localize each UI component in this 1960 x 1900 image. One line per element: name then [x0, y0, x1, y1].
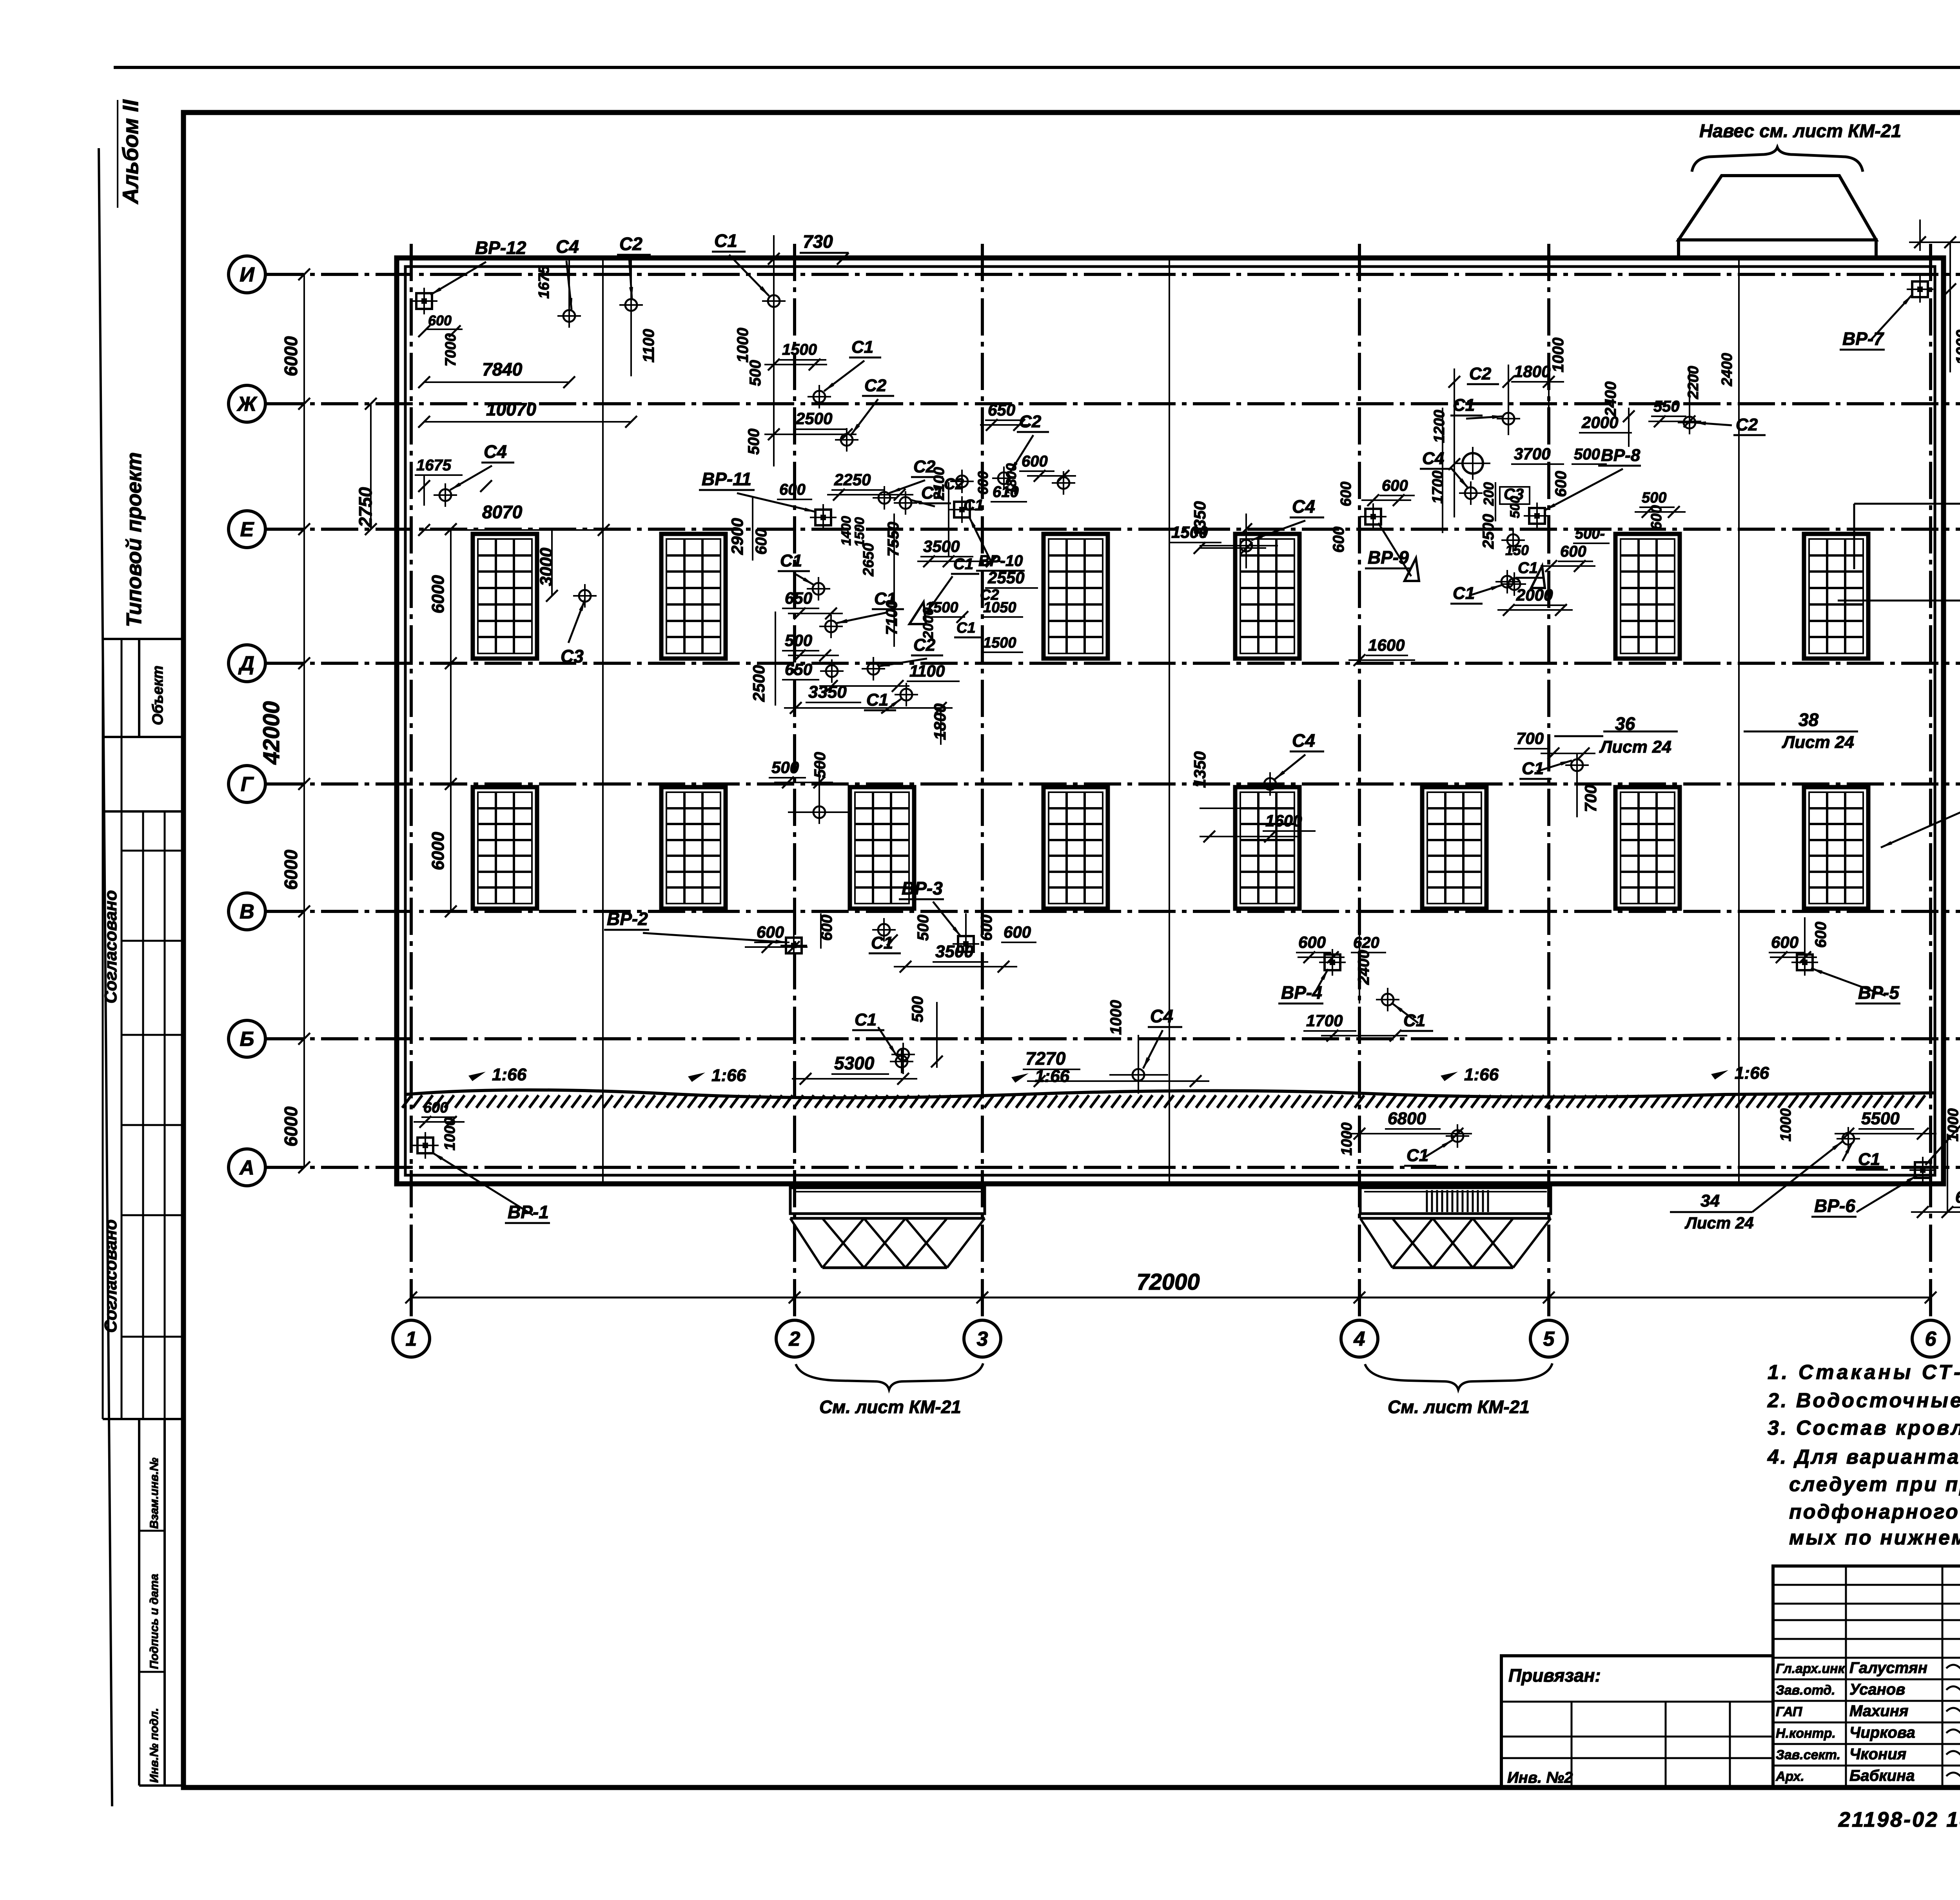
svg-text:38: 38 — [1798, 710, 1819, 730]
leader VR-10 — [969, 517, 992, 563]
cup C4 symbol top — [557, 304, 581, 328]
svg-text:1000: 1000 — [1339, 1122, 1355, 1156]
cup symbol k — [808, 800, 831, 824]
svg-text:С4: С4 — [1292, 730, 1315, 751]
svg-text:2200: 2200 — [1685, 366, 1702, 399]
cup C1 t — [872, 918, 896, 942]
svg-text:1500: 1500 — [782, 341, 817, 358]
leader VR-2 — [643, 933, 787, 942]
svg-text:2750: 2750 — [355, 487, 376, 528]
svg-text:4: 4 — [1354, 1328, 1365, 1350]
skylight band E-D cx=2744 — [1044, 534, 1108, 659]
drain funnel VR-3 — [953, 931, 979, 957]
leader C1 s — [1537, 760, 1572, 771]
leader C1 j — [881, 699, 902, 713]
leader C3 — [568, 600, 585, 643]
grid column circle 6 — [1912, 1320, 1949, 1357]
svg-text:С2: С2 — [1019, 412, 1042, 431]
svg-text:500: 500 — [747, 360, 764, 386]
leader VR-1 — [432, 1152, 533, 1215]
skylight band G-V cx=3710 — [1422, 787, 1486, 909]
inner dim chain x=1150 — [450, 529, 452, 911]
drain funnel VR-6 pos — [1909, 1157, 1936, 1183]
svg-text:650: 650 — [785, 660, 812, 679]
svg-text:42000: 42000 — [259, 701, 284, 765]
grid row circle Д — [229, 645, 265, 682]
svg-text:1675: 1675 — [416, 457, 452, 474]
svg-text:1:66: 1:66 — [492, 1065, 527, 1084]
svg-text:600: 600 — [1955, 1188, 1960, 1206]
svg-text:3. Состав кровли см. разрез: 3. Состав кровли см. разрез 1-1 лист 9. — [1768, 1417, 1960, 1439]
skylight band G-V cx=2250 — [850, 787, 914, 909]
svg-text:600: 600 — [978, 915, 995, 941]
svg-text:600: 600 — [779, 481, 806, 498]
svg-text:Чиркова: Чиркова — [1849, 1724, 1915, 1741]
svg-text:2500: 2500 — [1480, 514, 1497, 549]
svg-text:5500: 5500 — [1861, 1109, 1900, 1128]
svg-text:С1: С1 — [780, 551, 802, 570]
svg-text:Бабкина: Бабкина — [1849, 1767, 1915, 1784]
svg-text:10070: 10070 — [486, 399, 536, 419]
svg-text:1350: 1350 — [1191, 751, 1209, 788]
leader C2 d — [889, 480, 925, 493]
svg-text:34: 34 — [1700, 1191, 1720, 1210]
svg-text:1000: 1000 — [442, 1117, 458, 1151]
svg-text:2400: 2400 — [1355, 950, 1372, 985]
svg-text:200: 200 — [1481, 482, 1497, 506]
svg-text:650: 650 — [988, 401, 1015, 419]
cup C1 u — [1376, 988, 1399, 1011]
skylight band G-V cx=4684 — [1804, 787, 1868, 909]
cup C1 j — [895, 683, 918, 706]
cup C1 symbol b — [808, 385, 831, 408]
svg-text:А: А — [239, 1156, 254, 1179]
grid column circle 4 — [1341, 1320, 1378, 1357]
flag VR-9 triangle — [1405, 558, 1419, 581]
svg-text:См. лист КМ-21: См. лист КМ-21 — [1388, 1397, 1530, 1417]
intermediate axis line x=2983 — [1169, 259, 1170, 1183]
leader C1 x1 — [927, 576, 953, 612]
svg-text:С1: С1 — [953, 555, 973, 573]
svg-text:Типовой проект: Типовой проект — [122, 452, 146, 627]
svg-text:6000: 6000 — [281, 336, 301, 376]
leader 34 — [1752, 1141, 1842, 1212]
svg-text:7840: 7840 — [482, 359, 523, 379]
cup C2 f — [1052, 471, 1075, 495]
svg-text:Объект: Объект — [150, 666, 166, 725]
svg-text:1:66: 1:66 — [1464, 1065, 1499, 1084]
drain funnel VR-7 — [1907, 276, 1933, 303]
svg-text:ВР-10: ВР-10 — [978, 552, 1023, 570]
svg-text:1000: 1000 — [734, 328, 751, 363]
svg-text:600: 600 — [428, 312, 452, 328]
grid row line А — [267, 1166, 1960, 1169]
svg-text:500: 500 — [745, 428, 762, 455]
svg-text:С1: С1 — [1518, 559, 1538, 577]
svg-text:600: 600 — [1330, 526, 1347, 553]
grid column line 3 — [981, 244, 984, 1320]
svg-text:6800: 6800 — [1388, 1109, 1426, 1128]
svg-text:1700: 1700 — [1430, 470, 1446, 504]
svg-text:600: 600 — [1004, 923, 1031, 941]
skylight band G-V cx=3233 — [1235, 787, 1299, 909]
svg-text:3000: 3000 — [537, 548, 556, 586]
svg-text:600: 600 — [1382, 477, 1408, 494]
cup C1 s — [1565, 753, 1589, 777]
leader VR-8 — [1544, 469, 1623, 510]
svg-text:1700: 1700 — [1306, 1011, 1343, 1030]
svg-text:Д: Д — [238, 652, 254, 675]
svg-text:3: 3 — [977, 1328, 988, 1350]
ribbed vent block on canopy — [1427, 1190, 1488, 1212]
drain funnel VR-5 — [1791, 949, 1818, 976]
cup p4 — [1503, 572, 1526, 596]
canopy truss columns 2-3 — [790, 1188, 985, 1214]
svg-text:600: 600 — [753, 528, 770, 555]
svg-text:600: 600 — [423, 1100, 448, 1116]
svg-text:ВР-2: ВР-2 — [607, 909, 648, 929]
cup C1 h — [807, 577, 830, 601]
building outer wall — [397, 258, 1944, 1184]
cup C4 m — [1258, 772, 1282, 796]
svg-text:6000: 6000 — [428, 575, 448, 613]
leader VR-5 — [1811, 968, 1886, 996]
svg-text:8070: 8070 — [482, 502, 523, 522]
svg-text:Взам.инв.№: Взам.инв.№ — [148, 1458, 161, 1529]
svg-text:1: 1 — [406, 1328, 417, 1350]
svg-text:ВР-11: ВР-11 — [702, 469, 751, 489]
drain funnel VR-4 — [1319, 949, 1346, 976]
cup C2 symbol top — [619, 293, 643, 317]
svg-text:2550: 2550 — [987, 568, 1024, 587]
svg-text:700: 700 — [1581, 785, 1600, 812]
svg-text:1800: 1800 — [931, 704, 949, 740]
cup C1 y — [1446, 1124, 1469, 1148]
svg-text:600: 600 — [1298, 933, 1326, 951]
leader C4 m — [1275, 755, 1305, 779]
leader C2 q — [1694, 423, 1732, 425]
svg-text:2500: 2500 — [750, 665, 768, 702]
svg-text:См. лист КМ-21: См. лист КМ-21 — [819, 1397, 961, 1417]
svg-text:1600: 1600 — [1265, 811, 1302, 830]
title block signature grid — [1773, 1566, 1960, 1787]
svg-text:2. Водосточные воронки ВР-1: 2. Водосточные воронки ВР-1 ... 12 см. В… — [1767, 1389, 1960, 1412]
leader C4 row Zh — [450, 466, 492, 490]
svg-text:Навес см. лист КМ-21: Навес см. лист КМ-21 — [1699, 120, 1901, 141]
svg-text:1100: 1100 — [909, 662, 945, 680]
svg-text:следует при привязке предус: следует при привязке предусмотреть допол… — [1789, 1473, 1960, 1496]
svg-text:500: 500 — [771, 758, 799, 777]
svg-text:В: В — [240, 900, 254, 923]
grid column circle 5 — [1530, 1320, 1567, 1357]
leader C2 b — [851, 399, 878, 434]
cup p2 — [1459, 481, 1483, 505]
cup C2 d — [873, 486, 896, 510]
leader C1 i — [836, 612, 888, 623]
leader C2 f — [1010, 435, 1033, 473]
leader C1 z — [1842, 1143, 1852, 1161]
leader VR-12 — [430, 262, 486, 295]
svg-text:3500: 3500 — [923, 537, 960, 555]
leader zenith lantern — [1881, 809, 1960, 847]
leader C2 top — [629, 258, 632, 299]
svg-text:С1: С1 — [851, 338, 873, 357]
svg-text:1200: 1200 — [1431, 410, 1448, 443]
grid row line И — [267, 273, 1960, 276]
svg-text:Согласовано: Согласовано — [101, 1219, 120, 1333]
svg-text:ВР-8: ВР-8 — [1601, 446, 1641, 465]
main frame — [183, 113, 1960, 1787]
drain funnel VR-1 — [412, 1132, 439, 1159]
svg-text:Зав.сект.: Зав.сект. — [1776, 1748, 1840, 1762]
cup C2 i3 — [820, 659, 844, 683]
grid column circle 1 — [393, 1320, 430, 1357]
outer border left — [99, 148, 112, 1806]
cup C3 symbol — [573, 584, 597, 608]
grid row line В — [267, 910, 1960, 913]
svg-text:С2: С2 — [864, 376, 887, 395]
svg-text:подфонарного пространства с: подфонарного пространства с помощью нагр… — [1789, 1501, 1960, 1523]
svg-text:650: 650 — [785, 589, 812, 607]
svg-text:С2: С2 — [913, 635, 936, 655]
leader C4 p2 — [1450, 467, 1468, 488]
leader C4 top1 — [566, 261, 572, 310]
grid row line Б — [267, 1037, 1960, 1040]
svg-text:С4: С4 — [1422, 449, 1444, 468]
leader VR-3 — [933, 902, 961, 937]
svg-text:7270: 7270 — [1025, 1048, 1066, 1069]
leader C1 u — [1392, 1004, 1418, 1023]
svg-text:3350: 3350 — [808, 682, 847, 702]
skylight band G-V cx=1769 — [661, 787, 726, 909]
grid column line 6 — [1929, 244, 1932, 1320]
svg-text:1100: 1100 — [640, 329, 657, 363]
cup C4 w — [1127, 1063, 1150, 1087]
svg-text:Согласовано: Согласовано — [101, 890, 120, 1004]
cup p1 — [1497, 407, 1520, 430]
svg-text:1000: 1000 — [1550, 338, 1567, 372]
drain funnel VR-2 — [780, 932, 807, 959]
drain funnel VR-12 — [411, 288, 437, 314]
cup C1 n — [1495, 570, 1519, 593]
leader C2 i2 — [878, 659, 927, 666]
leader C1 top — [729, 255, 769, 296]
svg-text:ВР-12: ВР-12 — [475, 238, 526, 258]
grid row circle Г — [229, 766, 265, 802]
canopy truss columns 4-5 — [1360, 1188, 1551, 1214]
skylight band E-D cx=1288 — [473, 534, 537, 659]
leader VR-4 — [1313, 969, 1328, 996]
svg-text:Чкония: Чкония — [1849, 1746, 1906, 1763]
leader C1 b — [824, 361, 864, 391]
svg-text:2100: 2100 — [931, 467, 947, 501]
svg-text:1:66: 1:66 — [1735, 1063, 1769, 1083]
grid column line 1 — [410, 244, 413, 1320]
svg-text:С2: С2 — [1469, 364, 1492, 383]
svg-text:5300: 5300 — [834, 1053, 875, 1073]
svg-text:600: 600 — [757, 923, 784, 941]
cup extra 2 — [992, 466, 1016, 490]
skylight band E-D cx=4203 — [1615, 534, 1680, 659]
svg-text:2: 2 — [789, 1328, 800, 1350]
svg-text:Лист 24: Лист 24 — [1684, 1214, 1754, 1232]
grid column line 2 — [793, 244, 796, 1320]
svg-text:С1: С1 — [964, 497, 984, 514]
svg-text:6000: 6000 — [281, 849, 301, 890]
flag C1 triangle — [909, 602, 926, 624]
svg-text:600: 600 — [1022, 453, 1048, 470]
svg-text:Арх.: Арх. — [1775, 1769, 1804, 1784]
svg-text:ВР-9: ВР-9 — [1368, 547, 1409, 568]
svg-text:С1: С1 — [866, 690, 888, 710]
svg-text:С1: С1 — [1858, 1150, 1880, 1169]
privyazan box — [1501, 1656, 1773, 1787]
svg-text:С1: С1 — [714, 230, 737, 251]
svg-text:730: 730 — [803, 231, 833, 252]
intermediate axis line x=1538 — [602, 259, 604, 1183]
svg-text:Альбом II: Альбом II — [118, 99, 143, 205]
svg-text:С1: С1 — [874, 589, 896, 608]
grid row circle Б — [229, 1020, 265, 1057]
grid row circle В — [229, 893, 265, 930]
leader C1 h — [796, 574, 814, 585]
svg-text:ВР-6: ВР-6 — [1814, 1196, 1855, 1216]
skylight band E-D cx=4684 — [1804, 534, 1868, 659]
svg-text:500: 500 — [785, 631, 812, 650]
svg-text:Н.контр.: Н.контр. — [1776, 1726, 1836, 1741]
grid column circle 2 — [776, 1320, 813, 1357]
outer border top — [114, 66, 1960, 69]
svg-text:7000: 7000 — [443, 333, 459, 367]
svg-text:600: 600 — [1812, 922, 1829, 948]
svg-text:Подпись и дата: Подпись и дата — [148, 1574, 161, 1669]
dimension 72000 — [411, 1297, 1931, 1299]
drainage slope line — [405, 1090, 1935, 1098]
svg-text:1000: 1000 — [1953, 330, 1960, 365]
svg-text:6: 6 — [1925, 1328, 1937, 1350]
svg-text:4. Для варианта с расчетной: 4. Для варианта с расчетной зимней темпе… — [1767, 1446, 1960, 1468]
skylight band E-D cx=1769 — [661, 534, 726, 659]
grid row line Г — [267, 782, 1960, 786]
building inner wall line — [405, 267, 1935, 1175]
svg-text:Инв.№ подл.: Инв.№ подл. — [148, 1708, 161, 1783]
leader C1 y — [1423, 1140, 1453, 1158]
svg-text:3700: 3700 — [1514, 445, 1550, 463]
svg-text:Привязан:: Привязан: — [1508, 1665, 1601, 1686]
svg-text:1:66: 1:66 — [711, 1066, 746, 1085]
svg-text:Гл.арх.инк: Гл.арх.инк — [1776, 1661, 1846, 1676]
brace under naves label — [1692, 147, 1863, 172]
canopy naves top — [1679, 176, 1876, 240]
cup C1 d — [894, 491, 917, 515]
svg-text:С2: С2 — [619, 234, 642, 254]
intermediate axis line x=4436 — [1738, 259, 1740, 1183]
cup p6 — [1678, 411, 1701, 434]
leader C2 p — [1466, 416, 1504, 419]
flag C1 p4 triangle — [1531, 566, 1545, 588]
svg-text:1500: 1500 — [983, 635, 1016, 651]
svg-text:550: 550 — [1653, 398, 1680, 415]
svg-text:Усанов: Усанов — [1849, 1681, 1905, 1698]
svg-text:600: 600 — [1771, 933, 1798, 951]
grid column line 5 — [1547, 244, 1550, 1320]
grid column line 4 — [1358, 244, 1361, 1320]
leader C4 w — [1143, 1030, 1163, 1069]
drain funnel VR-8 — [1524, 503, 1550, 529]
grid row line Д — [267, 662, 1960, 665]
svg-text:150: 150 — [1505, 542, 1529, 558]
svg-text:1675: 1675 — [536, 265, 552, 299]
svg-text:Лист 24: Лист 24 — [1599, 737, 1671, 757]
svg-text:600: 600 — [1648, 505, 1665, 530]
svg-text:2400: 2400 — [1602, 381, 1619, 417]
svg-text:Галустян: Галустян — [1849, 1659, 1927, 1677]
svg-text:С4: С4 — [1150, 1006, 1173, 1026]
svg-text:Е: Е — [240, 518, 254, 541]
svg-text:1. Стаканы СТ-1...4 для про: 1. Стаканы СТ-1...4 для прохода вентшахт… — [1768, 1361, 1960, 1384]
grid row circle Ж — [229, 385, 265, 422]
svg-text:С1: С1 — [1453, 584, 1475, 603]
cup C1 i — [819, 615, 843, 638]
cup C1 z — [1837, 1127, 1860, 1151]
svg-text:500: 500 — [909, 996, 926, 1022]
leader VR-6 — [1857, 1175, 1918, 1212]
leader C1 b-a — [878, 1027, 897, 1056]
svg-text:1500: 1500 — [852, 517, 867, 547]
svg-text:С1: С1 — [855, 1010, 877, 1029]
svg-text:ВР-3: ВР-3 — [902, 878, 943, 898]
svg-text:С4: С4 — [1292, 496, 1315, 517]
svg-text:500: 500 — [1508, 496, 1523, 518]
svg-text:мых по нижнему периметру оп: мых по нижнему периметру опорного контур… — [1789, 1526, 1960, 1549]
leader VR-11 — [737, 493, 816, 512]
grid row circle А — [229, 1149, 265, 1186]
leader C1 n — [1471, 585, 1503, 595]
cup C2 i2 — [862, 657, 885, 681]
svg-text:С4: С4 — [484, 441, 507, 462]
grid row circle Е — [229, 511, 265, 548]
cup C2 symbol b — [835, 428, 858, 452]
svg-text:2650: 2650 — [860, 543, 877, 577]
skylight band G-V cx=1288 — [473, 787, 537, 909]
svg-text:1600: 1600 — [1368, 636, 1405, 654]
svg-text:500: 500 — [1642, 490, 1666, 506]
left dim chain — [303, 274, 305, 1167]
sidebar cell grid — [103, 638, 183, 640]
svg-text:С3: С3 — [561, 646, 584, 666]
drain funnel VR-9 — [1360, 503, 1387, 530]
svg-text:2900: 2900 — [728, 518, 746, 555]
drain funnel VR-10 — [949, 496, 975, 523]
svg-text:С1: С1 — [1453, 396, 1475, 415]
svg-text:Лист 24: Лист 24 — [1782, 733, 1854, 752]
grid row line Е — [267, 528, 1960, 531]
svg-text:2500: 2500 — [795, 409, 832, 428]
svg-text:1500: 1500 — [1171, 523, 1208, 541]
svg-text:С2: С2 — [1736, 415, 1758, 434]
cup C4 symbol row Zh — [434, 483, 457, 507]
svg-text:С1: С1 — [1406, 1146, 1428, 1165]
svg-text:600: 600 — [1552, 471, 1570, 497]
leader VR-7 — [1870, 295, 1912, 341]
svg-text:С1: С1 — [1522, 759, 1544, 778]
cup p3 — [1501, 528, 1525, 552]
svg-text:1400: 1400 — [839, 516, 854, 546]
cup C4 g — [1234, 534, 1258, 557]
grid row circle И — [229, 256, 265, 293]
drain funnel VR-11 — [810, 504, 837, 531]
svg-text:1800: 1800 — [1514, 362, 1550, 381]
